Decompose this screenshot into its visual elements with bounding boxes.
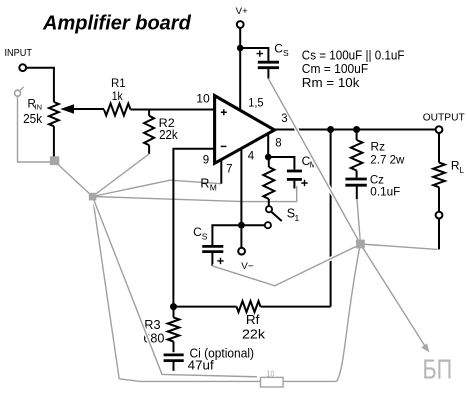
node grey hub left xyxy=(89,193,97,201)
svg-text:Rm = 10k: Rm = 10k xyxy=(302,75,360,90)
wire grey trace Cz bottom to right hub xyxy=(357,199,360,242)
resistor R2 22k xyxy=(148,110,150,116)
node output junction 1 xyxy=(327,126,334,133)
node RL bottom terminal xyxy=(436,212,443,219)
svg-text:Cm = 100uF: Cm = 100uF xyxy=(302,61,368,76)
switch S1 xyxy=(266,206,272,212)
svg-text:0.1uF: 0.1uF xyxy=(370,185,400,199)
resistor R3 680 xyxy=(173,307,175,318)
capacitor Cz xyxy=(345,178,366,181)
resistor Rz xyxy=(356,130,358,141)
svg-text:S: S xyxy=(202,231,208,241)
node grey hub right xyxy=(356,240,365,249)
wire junction to Cs xyxy=(240,48,268,61)
svg-text:M: M xyxy=(210,182,217,192)
wire grey trace left hub to R2 bottom xyxy=(93,154,150,197)
svg-text:9: 9 xyxy=(203,154,209,166)
node junction V+ / Cs xyxy=(237,45,244,52)
node output junction 2 xyxy=(353,126,360,133)
svg-text:L: L xyxy=(460,166,465,175)
svg-text:10: 10 xyxy=(196,91,210,105)
svg-text:47uf: 47uf xyxy=(188,358,215,372)
svg-text:10: 10 xyxy=(267,369,275,378)
wire grey bus curve to right hub xyxy=(337,248,360,381)
op-amp U1 xyxy=(215,96,275,164)
svg-text:22k: 22k xyxy=(242,326,265,341)
wire potentiometer bottom lead xyxy=(53,126,55,161)
resistor RL xyxy=(438,133,440,163)
wire junction to Cm xyxy=(268,157,294,170)
wire inverting input to feedback node xyxy=(173,149,214,307)
wire op-amp output to OUTPUT xyxy=(275,129,436,131)
wire grey trace Cs diagonal to right hub xyxy=(268,79,360,244)
svg-text:1,5: 1,5 xyxy=(248,96,264,110)
wire pin 7 stub xyxy=(220,159,222,184)
svg-text:R: R xyxy=(200,177,209,191)
wire wiper arrow to R1 xyxy=(72,108,104,110)
wire grey trace pad to left hub xyxy=(57,164,93,197)
wire pin 8 stub xyxy=(267,134,269,157)
resistor R1 1k xyxy=(104,104,131,116)
svg-text:22k: 22k xyxy=(159,128,178,142)
svg-text:Amplifier board: Amplifier board xyxy=(42,13,192,35)
node INPUT terminal xyxy=(19,64,26,71)
wire grey bottom bus xyxy=(119,379,260,382)
svg-text:1k: 1k xyxy=(112,89,124,103)
svg-text:Cs = 100uF || 0.1uF: Cs = 100uF || 0.1uF xyxy=(302,47,405,62)
potentiometer RIN 25k xyxy=(49,102,59,126)
svg-text:25k: 25k xyxy=(23,111,43,126)
node feedback junction xyxy=(170,303,177,310)
wire grey trace input pad to pot pad xyxy=(18,96,51,162)
svg-text:1: 1 xyxy=(295,213,300,223)
node OUTPUT terminal xyxy=(436,126,443,133)
resistor Rf 22k xyxy=(174,306,237,308)
wire INPUT to potentiometer top xyxy=(26,68,54,102)
wire grey trace Cs2 to right hub xyxy=(212,245,360,286)
wire grey trace from left hub to Cm plus terminal xyxy=(93,186,297,202)
svg-text:C: C xyxy=(274,42,283,56)
svg-text:Rz: Rz xyxy=(371,140,386,154)
node V+ terminal xyxy=(237,21,244,28)
wire switch to V- junction xyxy=(212,225,264,245)
svg-text:S: S xyxy=(283,48,289,58)
wire R1 to op-amp noninverting input xyxy=(131,109,215,111)
capacitor CS supply xyxy=(258,61,279,64)
capacitor CS decoupling xyxy=(202,245,223,248)
node grey input pad xyxy=(15,90,21,96)
resistor RM xyxy=(268,157,270,167)
svg-text:INPUT: INPUT xyxy=(5,48,33,59)
svg-text:Rf: Rf xyxy=(246,313,260,327)
capacitor Ci optional 47uf xyxy=(164,353,184,356)
wire grey trace right hub to RL bottom xyxy=(360,244,437,249)
capacitor CM xyxy=(287,170,302,173)
svg-text:C: C xyxy=(193,225,202,239)
wire grey trace left hub to Ci bottom xyxy=(93,197,258,377)
node grey pad pot bottom xyxy=(50,156,59,165)
svg-text:OUTPUT: OUTPUT xyxy=(423,112,466,124)
svg-text:V+: V+ xyxy=(236,6,249,17)
node V- terminal xyxy=(240,229,242,248)
svg-text:V−: V− xyxy=(241,261,254,272)
node V- junction xyxy=(238,222,245,229)
svg-text:4: 4 xyxy=(248,151,255,163)
node pin8 junction xyxy=(265,154,272,161)
wire feedback vertical xyxy=(330,130,332,307)
svg-text:7: 7 xyxy=(226,163,232,175)
wire grey trace left hub to bus left end xyxy=(93,197,120,379)
wire grey trace from left hub to pin 7 xyxy=(93,180,222,196)
svg-text:8: 8 xyxy=(275,138,281,150)
resistor 10 grey box xyxy=(261,377,284,387)
svg-text:2.7 2w: 2.7 2w xyxy=(370,153,405,167)
svg-text:БП: БП xyxy=(423,353,453,384)
wire V+ to op-amp xyxy=(239,28,241,110)
wire grey arrow from right hub xyxy=(360,244,426,349)
wire pin 4 to V- junction xyxy=(240,149,242,226)
svg-text:R1: R1 xyxy=(111,76,126,90)
